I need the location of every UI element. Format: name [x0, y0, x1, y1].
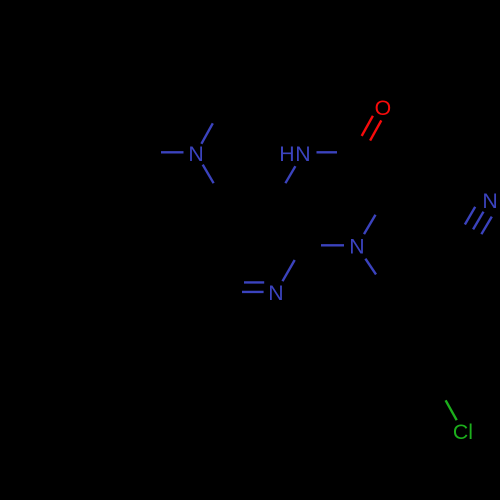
- svg-text:N: N: [482, 189, 497, 213]
- bond HN to ring C8a: [285, 166, 295, 183]
- nitrile triple bond line 2 (axis): [473, 212, 483, 230]
- bond HN to carbonyl C2: [317, 151, 338, 153]
- bond N(CH3)2 to ring C8: [203, 165, 214, 184]
- C2=O double bond line 1: [362, 116, 373, 136]
- bond N4 to chain CH2: [365, 259, 376, 275]
- nitrile triple bond line 3: [481, 217, 491, 235]
- svg-text:N: N: [349, 235, 364, 259]
- pyridine N=C6 double bond inner line: [244, 281, 264, 283]
- svg-text:H: H: [279, 142, 294, 166]
- svg-text:N: N: [295, 142, 310, 166]
- bond N4 to ring C3: [364, 215, 376, 234]
- bond N(CH3)2 left methyl: [161, 151, 184, 153]
- svg-text:N: N: [268, 281, 283, 305]
- svg-text:O: O: [375, 96, 392, 120]
- svg-text:Cl: Cl: [453, 420, 473, 444]
- svg-text:N: N: [188, 142, 203, 166]
- bond N(CH3)2 upper methyl: [201, 123, 212, 144]
- pyridine N=C6 double bond main line: [242, 291, 264, 293]
- bond Cl to chain CH2: [446, 400, 457, 420]
- nitrile triple bond line 1: [465, 207, 475, 225]
- C2=O double bond line 2: [370, 120, 381, 140]
- bond N4 to ring C4a: [321, 244, 344, 246]
- bond pyridine N to ring C4a: [283, 260, 295, 281]
